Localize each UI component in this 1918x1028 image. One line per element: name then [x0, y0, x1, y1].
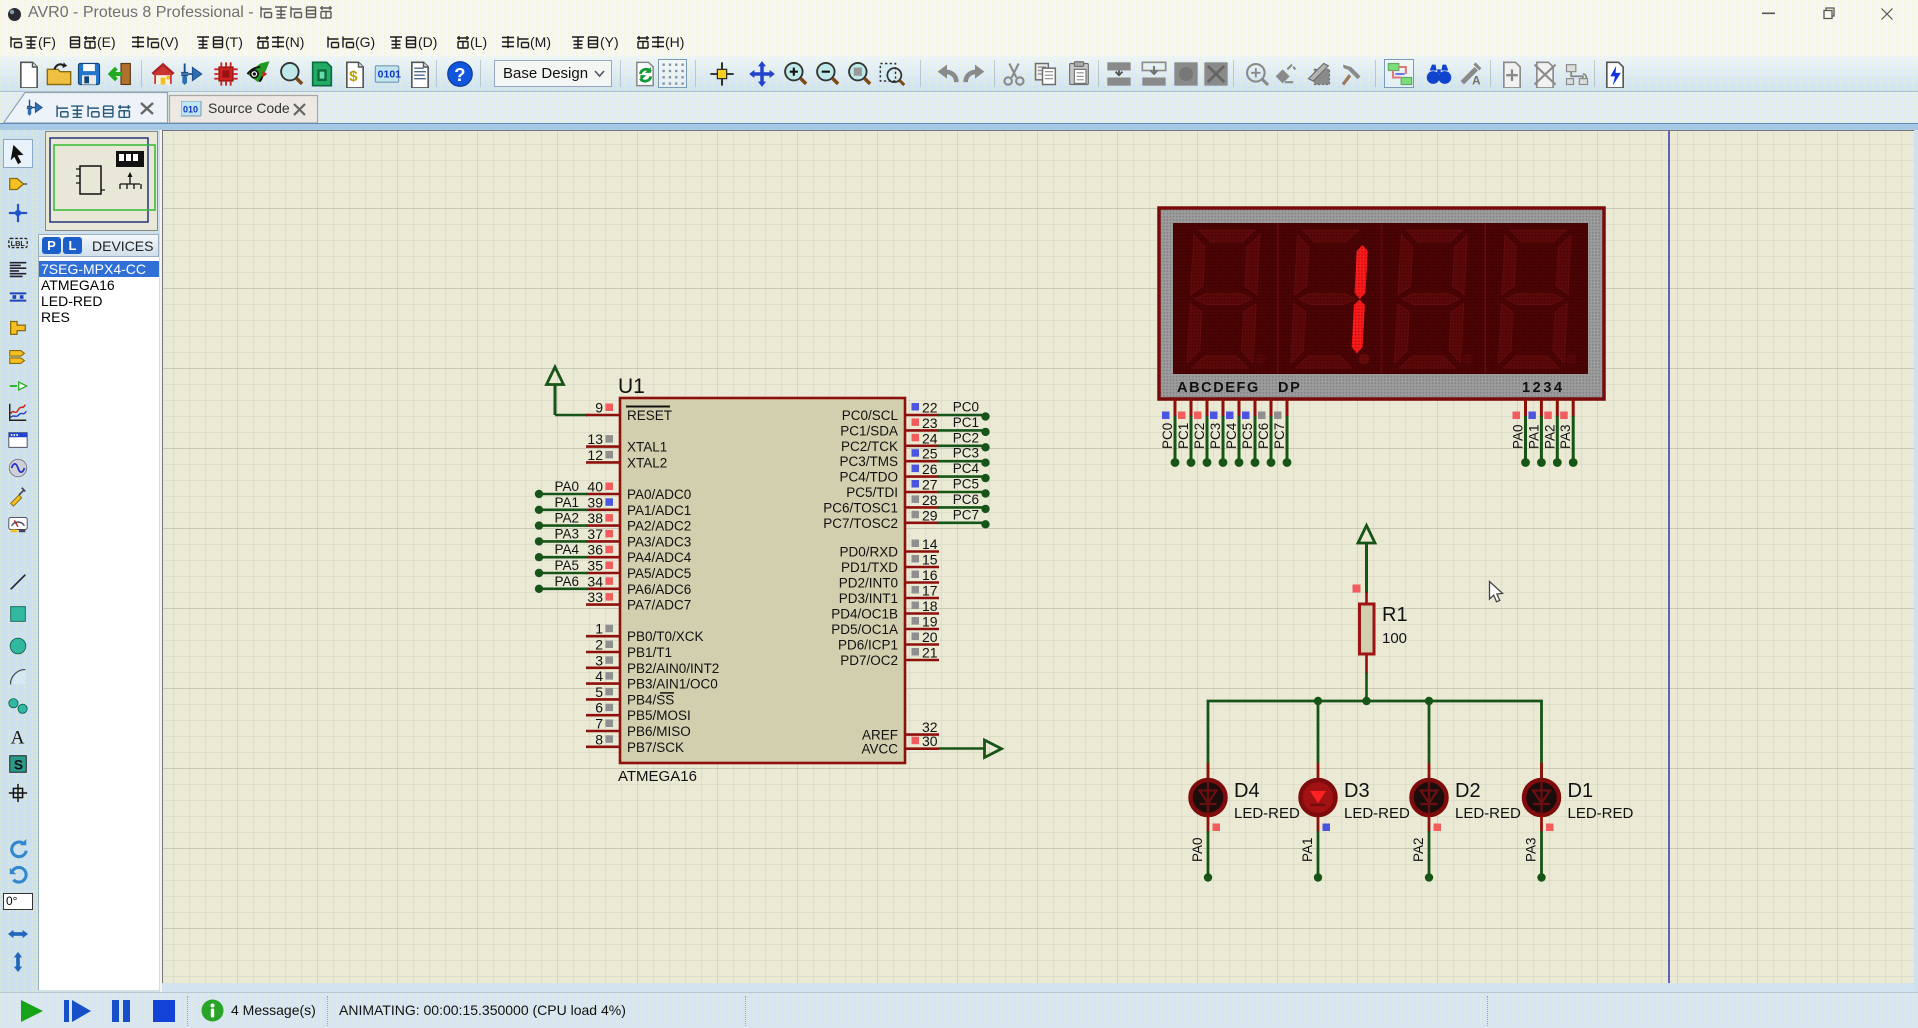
svg-text:15: 15 — [922, 552, 938, 568]
pin 22 PC0/SCL — [842, 400, 939, 424]
svg-text:PA5/ADC5: PA5/ADC5 — [627, 566, 691, 581]
svg-text:PC5/TDI: PC5/TDI — [846, 485, 898, 500]
pin 18 PD4/OC1B — [831, 598, 939, 622]
svg-text:PA2/ADC2: PA2/ADC2 — [627, 519, 691, 534]
sheet border — [1668, 131, 1670, 984]
svg-text:16: 16 — [922, 567, 938, 583]
svg-text:28: 28 — [922, 492, 938, 508]
svg-text:7: 7 — [595, 716, 603, 732]
svg-text:22: 22 — [922, 400, 938, 416]
svg-text:35: 35 — [587, 558, 603, 574]
svg-text:D3: D3 — [1344, 780, 1370, 802]
svg-text:R1: R1 — [1382, 604, 1408, 626]
wire net PC0 — [938, 400, 990, 421]
svg-text:PC5: PC5 — [953, 477, 979, 492]
pin 1 PB0/T0/XCK — [586, 621, 704, 645]
svg-text:6: 6 — [595, 700, 603, 716]
svg-text:PC1/SDA: PC1/SDA — [840, 423, 898, 438]
7seg display panel — [1173, 223, 1588, 374]
svg-text:AVCC: AVCC — [861, 742, 898, 757]
svg-text:PA0/ADC0: PA0/ADC0 — [627, 487, 691, 502]
svg-text:PC1: PC1 — [1176, 423, 1191, 449]
7seg cell separator 2 — [1381, 223, 1383, 374]
pin 17 PD3/INT1 — [839, 583, 939, 607]
7seg cell separator 3 — [1484, 223, 1486, 374]
wire net PC1 — [938, 415, 990, 436]
svg-text:PC6/TOSC1: PC6/TOSC1 — [823, 500, 898, 515]
7seg panel mesh texture — [1173, 223, 1588, 374]
toolbar — [0, 56, 1918, 92]
pin 33 PA7/ADC7 — [586, 589, 691, 613]
pin 23 PC1/SDA — [840, 415, 939, 439]
svg-text:PA2: PA2 — [1411, 837, 1426, 862]
svg-text:PC7: PC7 — [953, 507, 979, 522]
pin 32 AREF — [862, 719, 939, 743]
LED D2 — [1412, 763, 1522, 832]
svg-text:PB1/T1: PB1/T1 — [627, 645, 672, 660]
7seg cell separator 1 — [1277, 223, 1279, 374]
U1 right pin stubs and labels — [823, 400, 989, 757]
pin 2 PB1/T1 — [586, 637, 672, 661]
svg-text:PB7/SCK: PB7/SCK — [627, 740, 684, 755]
left tool strip — [0, 130, 36, 992]
LED D3 — [1301, 763, 1411, 832]
resistor R1 — [1353, 526, 1408, 702]
svg-text:12: 12 — [587, 447, 603, 463]
pin 8 PB7/SCK — [586, 731, 684, 755]
svg-text:100: 100 — [1382, 630, 1407, 647]
pin 4 PB3/AIN1/OC0 — [586, 668, 718, 692]
7seg pin 1 wire net PC0 — [1160, 399, 1179, 467]
svg-text:26: 26 — [922, 461, 938, 477]
svg-text:13: 13 — [587, 431, 603, 447]
R1 body — [1360, 604, 1375, 654]
svg-text:PA7/ADC7: PA7/ADC7 — [627, 598, 691, 613]
svg-text:U1: U1 — [618, 375, 645, 398]
7seg display frame — [1159, 208, 1604, 399]
pin 9 RESET — [586, 400, 672, 424]
svg-text:PC0/SCL: PC0/SCL — [842, 408, 899, 423]
pin 29 PC7/TOSC2 — [823, 507, 939, 531]
svg-text:PA2: PA2 — [554, 511, 579, 526]
svg-text:27: 27 — [922, 477, 938, 493]
wire net PA0 at D4 — [1190, 824, 1220, 882]
svg-text:ABCDEFG: ABCDEFG — [1177, 380, 1260, 396]
svg-text:AREF: AREF — [862, 728, 898, 743]
svg-text:PA1: PA1 — [1526, 424, 1541, 449]
svg-text:39: 39 — [587, 494, 603, 510]
wire net PC5 — [938, 477, 990, 498]
wire net PA1 at D3 — [1300, 824, 1330, 882]
menu bar — [0, 28, 1918, 56]
junction node at D3 branch — [1314, 697, 1322, 705]
pin 25 PC3/TMS — [839, 446, 939, 470]
svg-text:PA3: PA3 — [1524, 837, 1539, 862]
wire net PA5 — [535, 558, 587, 577]
junction node at R1 branch — [1362, 697, 1370, 705]
svg-text:PD7/OC2: PD7/OC2 — [840, 653, 898, 668]
inactive tab Source Code — [181, 101, 202, 117]
wire net PA2 — [535, 511, 587, 530]
svg-text:PD0/RXD: PD0/RXD — [839, 545, 898, 560]
svg-text:A: A — [11, 727, 25, 747]
pin 30 AVCC — [861, 733, 939, 757]
state square R1 — [1353, 585, 1361, 593]
svg-text:LED-RED: LED-RED — [1568, 805, 1634, 822]
pin 35 PA5/ADC5 — [586, 558, 691, 582]
svg-text:PA0: PA0 — [1190, 837, 1205, 862]
svg-text:PA2: PA2 — [1542, 424, 1557, 449]
svg-text:DP: DP — [1278, 380, 1301, 396]
7seg digit pin 4 wire net PA3 — [1558, 399, 1577, 467]
svg-text:PC2/TCK: PC2/TCK — [841, 439, 898, 454]
wire net PA0 — [535, 479, 587, 498]
svg-text:25: 25 — [922, 446, 938, 462]
svg-text:PA3: PA3 — [1558, 424, 1573, 449]
svg-text:PC3/TMS: PC3/TMS — [839, 454, 898, 469]
7seg pin 2 wire net PC1 — [1176, 399, 1195, 467]
pin 27 PC5/TDI — [846, 477, 939, 501]
svg-text:0101: 0101 — [378, 69, 401, 81]
svg-text:D4: D4 — [1234, 780, 1260, 802]
svg-text:PB5/MOSI: PB5/MOSI — [627, 708, 691, 723]
svg-text:PA0: PA0 — [1511, 424, 1526, 449]
7seg pin 5 wire net PC4 — [1224, 399, 1243, 467]
svg-text:20: 20 — [922, 629, 938, 645]
svg-text:A: A — [1472, 75, 1481, 88]
pin 34 PA6/ADC6 — [586, 573, 691, 597]
svg-text:PA3/ADC3: PA3/ADC3 — [627, 534, 691, 549]
pin 15 PD1/TXD — [841, 552, 939, 576]
pin 26 PC4/TDO — [839, 461, 939, 485]
7seg pin 3 wire net PC2 — [1192, 399, 1211, 467]
svg-text:PC3: PC3 — [1208, 423, 1223, 449]
7seg digit pin 3 wire net PA2 — [1542, 399, 1561, 467]
wire RESET to U1 pin 9 — [555, 414, 588, 417]
pin 6 PB5/MOSI — [586, 700, 691, 724]
svg-text:17: 17 — [922, 583, 938, 599]
junction node at D2 branch — [1425, 697, 1433, 705]
wire net PA3 — [535, 526, 587, 545]
LED D1 — [1524, 763, 1634, 832]
svg-text:?: ? — [454, 64, 465, 85]
svg-text:PC1: PC1 — [953, 415, 979, 430]
svg-text:PB0/T0/XCK: PB0/T0/XCK — [627, 629, 704, 644]
svg-text:4: 4 — [595, 668, 603, 684]
7seg digit 4 — [1498, 230, 1584, 368]
svg-text:9: 9 — [595, 400, 603, 416]
svg-text:5: 5 — [595, 684, 603, 700]
svg-text:PA6/ADC6: PA6/ADC6 — [627, 582, 691, 597]
wire AVCC to power arrow — [939, 740, 1002, 758]
7seg pin 7 wire net PC6 — [1256, 399, 1275, 467]
pin 13 XTAL1 — [586, 431, 667, 455]
pin 36 PA4/ADC4 — [586, 542, 692, 566]
power arrow VCC (RESET net) — [547, 367, 564, 415]
svg-text:XTAL1: XTAL1 — [627, 440, 667, 455]
7seg pin 8 wire net PC7 — [1272, 399, 1291, 467]
7seg pin 4 wire net PC3 — [1208, 399, 1227, 467]
LED D4 — [1191, 763, 1301, 832]
svg-text:LED-RED: LED-RED — [1234, 805, 1300, 822]
wire net PC6 — [938, 492, 990, 513]
svg-text:8: 8 — [595, 731, 603, 747]
wire net PA1 — [535, 495, 587, 514]
U1 left pin stubs and labels — [535, 400, 719, 755]
wire R1 top — [1365, 543, 1368, 593]
svg-text:1234: 1234 — [1522, 380, 1565, 396]
svg-text:34: 34 — [587, 573, 603, 589]
svg-text:PC0: PC0 — [1160, 423, 1175, 449]
pin 21 PD7/OC2 — [840, 645, 939, 669]
svg-text:PA3: PA3 — [554, 526, 579, 541]
wire net PC2 — [938, 430, 990, 451]
tab bar — [0, 92, 1918, 123]
svg-text:PA4/ADC4: PA4/ADC4 — [627, 550, 692, 565]
power arrow at R1 top — [1358, 526, 1375, 544]
pin 37 PA3/ADC3 — [586, 526, 691, 550]
svg-text:33: 33 — [587, 589, 603, 605]
pin 40 PA0/ADC0 — [586, 479, 691, 503]
7seg digit pin 2 wire net PA1 — [1526, 399, 1545, 467]
title bar — [0, 0, 1918, 28]
pin 20 PD6/ICP1 — [838, 629, 939, 653]
svg-text:LBL: LBL — [11, 239, 26, 248]
svg-text:PD5/OC1A: PD5/OC1A — [831, 622, 898, 637]
active tab 原理图绘制 — [26, 97, 132, 121]
svg-text:PA5: PA5 — [554, 558, 579, 573]
svg-text:1: 1 — [595, 621, 603, 637]
svg-text:D1: D1 — [1568, 780, 1594, 802]
svg-text:ATMEGA16: ATMEGA16 — [618, 768, 697, 785]
svg-text:PA1/ADC1: PA1/ADC1 — [627, 503, 691, 518]
svg-text:PC2: PC2 — [953, 430, 979, 445]
wire net PC3 — [938, 446, 990, 467]
svg-text:37: 37 — [587, 526, 603, 542]
7seg digit 1 — [1187, 230, 1273, 368]
svg-text:PB2/AIN0/INT2: PB2/AIN0/INT2 — [627, 661, 719, 676]
svg-text:19: 19 — [922, 614, 938, 630]
svg-text:010: 010 — [183, 105, 198, 115]
svg-text:PC4: PC4 — [1224, 422, 1239, 449]
svg-text:S: S — [14, 758, 23, 773]
svg-text:2: 2 — [595, 637, 603, 653]
pin 7 PB6/MISO — [586, 716, 691, 740]
svg-text:40: 40 — [587, 479, 603, 495]
svg-text:RESET: RESET — [627, 408, 672, 423]
svg-text:PC4: PC4 — [953, 461, 980, 476]
wire net PA6 — [535, 574, 587, 593]
svg-text:24: 24 — [922, 430, 938, 446]
svg-text:PA6: PA6 — [554, 574, 579, 589]
wire net PA2 at D2 — [1411, 824, 1441, 882]
R1 pins — [1365, 592, 1368, 674]
svg-text:30: 30 — [922, 733, 938, 749]
wire net PA3 at D1 — [1524, 824, 1554, 882]
pin 3 PB2/AIN0/INT2 — [586, 652, 719, 676]
pin 16 PD2/INT0 — [839, 567, 939, 591]
svg-text:LED-RED: LED-RED — [1455, 805, 1521, 822]
svg-text:PC6: PC6 — [953, 492, 979, 507]
wire LED rail — [1208, 701, 1542, 778]
svg-text:PD6/ICP1: PD6/ICP1 — [838, 638, 898, 653]
7-segment display 7SEG-MPX4-CC — [1159, 208, 1604, 467]
wire net PC4 — [938, 461, 990, 482]
svg-text:PA0: PA0 — [554, 479, 579, 494]
status bar — [0, 992, 1918, 1028]
svg-text:PA4: PA4 — [554, 542, 579, 557]
svg-text:$: $ — [349, 68, 358, 85]
svg-text:21: 21 — [922, 645, 938, 661]
pin 12 XTAL2 — [586, 447, 667, 471]
7seg digit 3 — [1394, 230, 1480, 368]
svg-text:LED-RED: LED-RED — [1344, 805, 1410, 822]
mouse cursor — [1490, 582, 1503, 602]
svg-text:29: 29 — [922, 507, 938, 523]
svg-text:PC6: PC6 — [1256, 423, 1271, 449]
svg-text:18: 18 — [922, 598, 938, 614]
svg-text:PD2/INT0: PD2/INT0 — [839, 576, 898, 591]
pin 39 PA1/ADC1 — [586, 494, 691, 518]
svg-text:PC5: PC5 — [1240, 423, 1255, 449]
pin 5 PB4/SS — [586, 684, 674, 708]
svg-text:23: 23 — [922, 415, 938, 431]
schematic canvas — [162, 130, 1914, 983]
pin 24 PC2/TCK — [841, 430, 939, 454]
svg-text:PB4/SS: PB4/SS — [627, 692, 674, 707]
svg-text:PC7: PC7 — [1272, 423, 1287, 449]
pin 38 PA2/ADC2 — [586, 510, 691, 534]
wire R1 bottom to rail — [1365, 673, 1368, 701]
wire net PC7 — [938, 507, 990, 528]
7seg pin 6 wire net PC5 — [1240, 399, 1259, 467]
side panel — [36, 130, 160, 992]
wire net PA4 — [535, 542, 587, 561]
svg-text:PA1: PA1 — [1300, 837, 1315, 862]
svg-text:PA1: PA1 — [554, 495, 579, 510]
pin 14 PD0/RXD — [839, 536, 939, 560]
svg-text:PC0: PC0 — [953, 400, 979, 415]
svg-text:PC7/TOSC2: PC7/TOSC2 — [823, 516, 898, 531]
svg-text:PD4/OC1B: PD4/OC1B — [831, 607, 898, 622]
svg-text:PC2: PC2 — [1192, 423, 1207, 449]
7seg digit 2 — [1291, 230, 1377, 368]
svg-text:PB3/AIN1/OC0: PB3/AIN1/OC0 — [627, 677, 718, 692]
svg-text:PC4/TDO: PC4/TDO — [839, 470, 898, 485]
svg-text:3: 3 — [595, 652, 603, 668]
svg-text:XTAL2: XTAL2 — [627, 455, 667, 470]
chip U1 body ATMEGA16 — [618, 375, 905, 785]
svg-text:PD3/INT1: PD3/INT1 — [839, 591, 898, 606]
svg-text:38: 38 — [587, 510, 603, 526]
svg-text:D2: D2 — [1455, 780, 1481, 802]
pin 28 PC6/TOSC1 — [823, 492, 939, 516]
7seg digit pin 1 wire net PA0 — [1511, 399, 1530, 467]
svg-text:PD1/TXD: PD1/TXD — [841, 560, 898, 575]
svg-text:14: 14 — [922, 536, 938, 552]
svg-text:PB6/MISO: PB6/MISO — [627, 724, 691, 739]
svg-text:36: 36 — [587, 542, 603, 558]
pin 19 PD5/OC1A — [831, 614, 939, 638]
svg-text:PC3: PC3 — [953, 446, 979, 461]
